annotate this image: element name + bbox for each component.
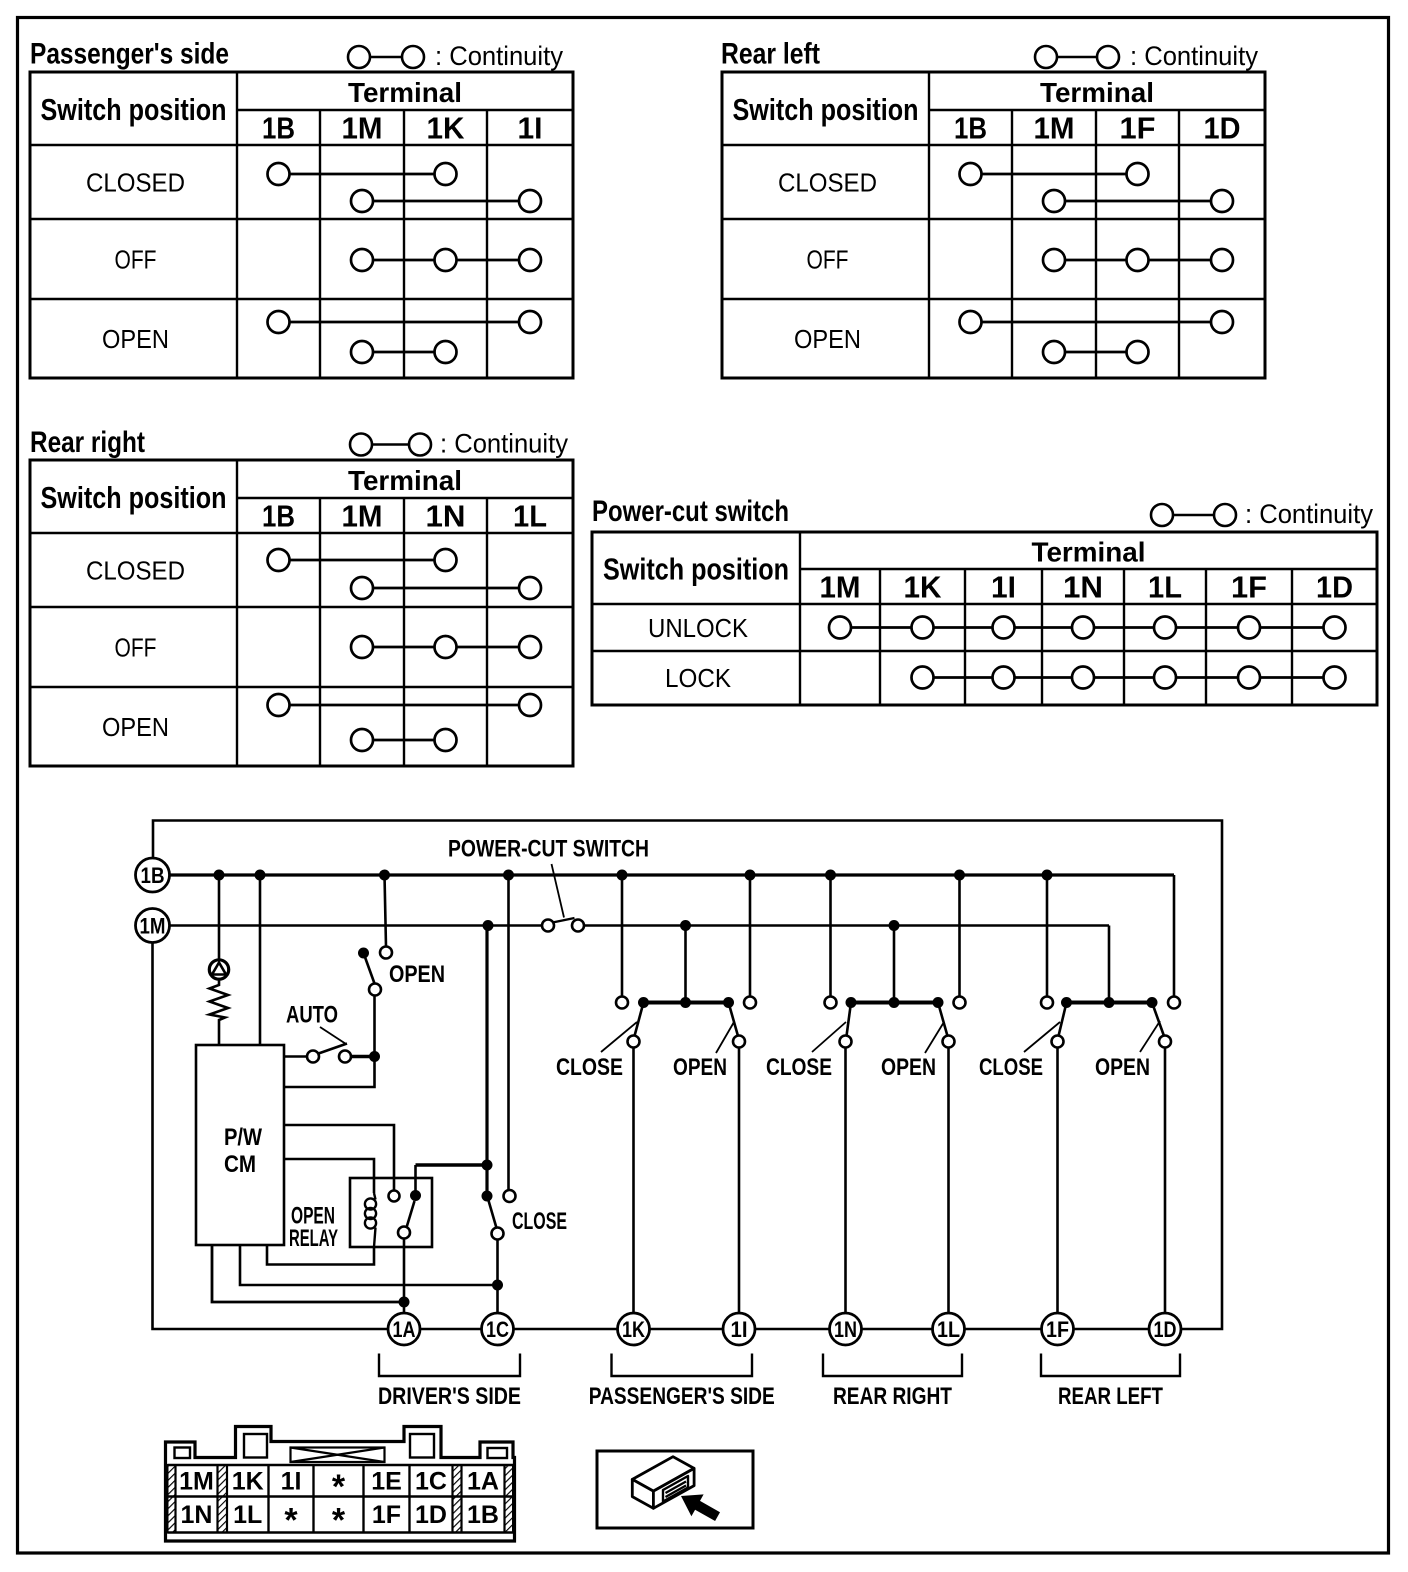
svg-text:CLOSED: CLOSED (778, 168, 877, 198)
svg-text:1D: 1D (1316, 570, 1353, 605)
svg-text:CM: CM (224, 1151, 256, 1178)
svg-text:OPEN: OPEN (673, 1054, 727, 1081)
svg-text:OFF: OFF (115, 245, 157, 275)
svg-text:1K: 1K (622, 1317, 645, 1342)
svg-text:1D: 1D (415, 1501, 447, 1529)
svg-text:POWER-CUT SWITCH: POWER-CUT SWITCH (448, 836, 649, 863)
svg-text:1M: 1M (1034, 111, 1075, 146)
svg-text:: Continuity: : Continuity (1245, 499, 1373, 529)
svg-text:1L: 1L (513, 499, 547, 534)
svg-text:CLOSE: CLOSE (979, 1054, 1043, 1081)
svg-text:1N: 1N (1063, 570, 1103, 605)
svg-text:Rear right: Rear right (30, 426, 145, 459)
svg-text:1M: 1M (342, 111, 383, 146)
svg-text:Terminal: Terminal (1040, 77, 1154, 108)
svg-text:REAR LEFT: REAR LEFT (1058, 1383, 1163, 1410)
svg-text:OPEN: OPEN (794, 324, 861, 354)
svg-text:Switch position: Switch position (41, 480, 227, 515)
svg-text:1F: 1F (1120, 111, 1156, 146)
svg-text:OPEN: OPEN (102, 324, 169, 354)
svg-text:1I: 1I (281, 1467, 302, 1495)
svg-text:REAR RIGHT: REAR RIGHT (833, 1383, 952, 1410)
svg-text:1A: 1A (467, 1467, 499, 1495)
svg-text:Power-cut switch: Power-cut switch (592, 495, 789, 528)
svg-text:1L: 1L (937, 1317, 960, 1342)
svg-text:Switch position: Switch position (603, 552, 789, 587)
svg-text:RELAY: RELAY (289, 1225, 338, 1252)
svg-text:1K: 1K (232, 1467, 264, 1495)
svg-text:1K: 1K (427, 111, 466, 146)
svg-text:1N: 1N (834, 1317, 857, 1342)
svg-text:Terminal: Terminal (348, 465, 462, 496)
svg-text:Terminal: Terminal (1032, 537, 1146, 568)
svg-text:CLOSED: CLOSED (86, 556, 185, 586)
svg-text:1C: 1C (486, 1317, 509, 1342)
svg-text:Passenger's side: Passenger's side (30, 38, 229, 71)
svg-text:1E: 1E (371, 1467, 402, 1495)
svg-text:1F: 1F (372, 1501, 401, 1529)
svg-text:1L: 1L (1148, 570, 1182, 605)
svg-text:1F: 1F (1046, 1317, 1069, 1342)
svg-text:Rear left: Rear left (721, 38, 820, 71)
svg-text:OPEN: OPEN (1095, 1054, 1150, 1081)
svg-text:*: * (332, 1468, 346, 1506)
svg-text:1L: 1L (233, 1501, 262, 1529)
svg-text:Switch position: Switch position (41, 92, 227, 127)
svg-text:1N: 1N (181, 1501, 213, 1529)
svg-text:1K: 1K (904, 570, 943, 605)
svg-text:1N: 1N (426, 499, 466, 534)
svg-text:1F: 1F (1231, 570, 1267, 605)
svg-text:Switch position: Switch position (733, 92, 919, 127)
svg-text:1B: 1B (467, 1501, 499, 1529)
svg-text:: Continuity: : Continuity (440, 429, 568, 459)
svg-text:1D: 1D (1204, 111, 1241, 146)
svg-text:DRIVER'S SIDE: DRIVER'S SIDE (378, 1383, 521, 1410)
svg-text:1I: 1I (991, 570, 1016, 605)
svg-text:LOCK: LOCK (665, 663, 732, 693)
svg-text:: Continuity: : Continuity (1130, 41, 1258, 71)
svg-text:OPEN: OPEN (881, 1054, 936, 1081)
svg-text:CLOSED: CLOSED (86, 168, 185, 198)
svg-text:CLOSE: CLOSE (556, 1054, 623, 1081)
svg-text:1B: 1B (954, 111, 987, 146)
svg-text:P/W: P/W (224, 1124, 262, 1151)
svg-text:1I: 1I (518, 111, 543, 146)
svg-text:AUTO: AUTO (286, 1002, 338, 1029)
svg-text:1M: 1M (140, 914, 166, 939)
svg-text:1A: 1A (393, 1317, 416, 1342)
svg-text:: Continuity: : Continuity (435, 41, 563, 71)
svg-text:CLOSE: CLOSE (766, 1054, 832, 1081)
svg-text:1C: 1C (415, 1467, 447, 1495)
svg-text:1B: 1B (262, 499, 295, 534)
svg-text:OFF: OFF (807, 245, 849, 275)
svg-text:1B: 1B (262, 111, 295, 146)
svg-text:PASSENGER'S SIDE: PASSENGER'S SIDE (589, 1383, 775, 1410)
svg-text:OPEN: OPEN (102, 712, 169, 742)
svg-text:Terminal: Terminal (348, 77, 462, 108)
svg-text:1B: 1B (141, 863, 165, 888)
svg-text:1M: 1M (179, 1467, 214, 1495)
svg-text:1M: 1M (820, 570, 861, 605)
svg-text:UNLOCK: UNLOCK (648, 613, 749, 643)
svg-text:CLOSE: CLOSE (512, 1208, 567, 1235)
svg-text:OPEN: OPEN (389, 961, 445, 988)
svg-text:1M: 1M (342, 499, 383, 534)
svg-text:1I: 1I (731, 1317, 748, 1342)
svg-text:OFF: OFF (115, 633, 157, 663)
svg-text:*: * (332, 1502, 346, 1540)
svg-text:1D: 1D (1154, 1317, 1177, 1342)
svg-text:*: * (284, 1502, 298, 1540)
